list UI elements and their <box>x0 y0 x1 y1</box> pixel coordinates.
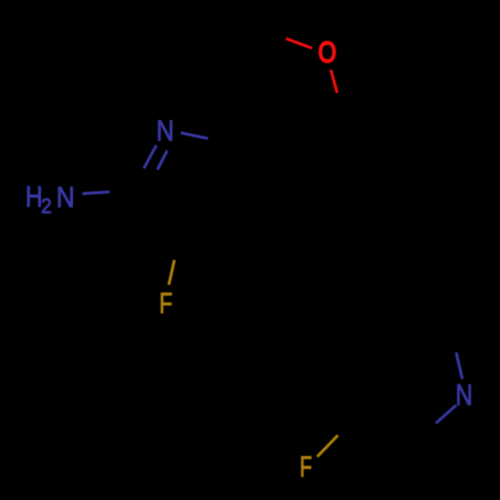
wire: double bond N1=C2 inner line (blue half near N1) <box>157 151 167 170</box>
svg-text:N: N <box>56 182 74 214</box>
wire: bond N1-C7a (blue half near N1) <box>181 133 208 139</box>
wire: bond F1-C3 (gold half near F1) <box>169 260 175 285</box>
wire: bond N2-C upper (blue half near N2) <box>456 353 462 380</box>
wire: bond H2N-C2 (blue half near amine N) <box>82 192 109 194</box>
wire: bond N2-C lower-left (blue half near N2) <box>436 405 456 423</box>
wire: double bond N1=C2 main line (blue half near N1) <box>144 145 157 168</box>
svg-text:O: O <box>318 37 336 69</box>
svg-text:F: F <box>300 452 312 484</box>
svg-text:2: 2 <box>41 195 52 218</box>
svg-text:N: N <box>156 116 174 148</box>
svg-text:N: N <box>455 379 472 412</box>
svg-text:F: F <box>159 288 172 320</box>
wire: bond F2-C (gold half near F2) <box>317 435 338 457</box>
wire: bond O-CH3 (red half near O) <box>286 39 312 49</box>
wire: bond O-C6 aryl (red half near O) <box>331 70 337 93</box>
svg-text:H: H <box>25 182 42 214</box>
